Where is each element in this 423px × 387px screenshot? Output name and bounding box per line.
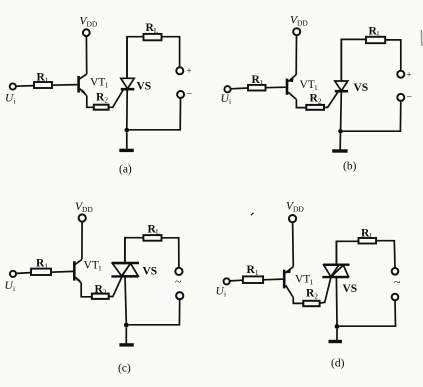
- svg-text:i: i: [14, 97, 16, 106]
- transistor VT1 (d) collector diagonal: [286, 285, 294, 297]
- resistor RL (b): [366, 37, 385, 43]
- thyristor VS (a) anode wire: [126, 37, 128, 79]
- transistor VT1 (c) emitter diagonal with arrow: [75, 277, 81, 283]
- svg-text:VS: VS: [143, 266, 158, 278]
- ground (d): [336, 329, 338, 340]
- triac VS (d) bottom wire: [335, 277, 338, 324]
- triac VS (c) bottom bar: [111, 275, 138, 277]
- wire emitter to VDD (d): [292, 222, 295, 266]
- output terminal bottom (c): [176, 292, 183, 299]
- wire R2 to gate (b): [324, 91, 339, 108]
- stray tick mark (d): [251, 213, 254, 215]
- resistor RL (a): [144, 34, 162, 40]
- svg-text:VS: VS: [354, 82, 369, 94]
- output terminal + (a): [176, 67, 183, 74]
- transistor VT1 (a) emitter diagonal with arrow: [80, 89, 87, 96]
- transistor VT1 (b) base bar: [286, 79, 289, 95]
- svg-text:2: 2: [103, 288, 107, 297]
- wire emitter to VDD (b): [295, 35, 297, 74]
- svg-text:1: 1: [98, 264, 102, 273]
- thyristor VS (a) triangle: [121, 78, 134, 88]
- transistor VT1 (b) collector diagonal: [288, 92, 296, 99]
- svg-text:(d): (d): [331, 358, 345, 370]
- transistor VT1 (b) emitter diagonal with arrow (PNP): [288, 75, 296, 82]
- wire emitter down (c): [81, 283, 92, 297]
- thyristor VS (a) cathode bar: [121, 88, 135, 91]
- svg-text:1: 1: [310, 278, 314, 287]
- svg-text:(c): (c): [118, 363, 131, 375]
- svg-text:DD: DD: [87, 20, 98, 29]
- resistor R2 (c): [92, 294, 109, 299]
- power terminal VDD (a): [83, 29, 90, 36]
- wire Ui to R1 (b): [231, 87, 248, 90]
- power terminal VDD (c): [79, 214, 86, 221]
- wire Ui to R1 (c): [16, 272, 31, 275]
- ground (c): [125, 327, 127, 343]
- ground (b): [339, 134, 341, 150]
- node junction dot (d): [335, 324, 340, 329]
- output terminal top (d): [392, 268, 399, 275]
- wire R2 to gate (a): [109, 89, 124, 107]
- output terminal + (b): [397, 71, 404, 78]
- wire top rail to RL (c): [125, 238, 143, 263]
- wire - terminal to bottom rail (b): [343, 101, 401, 131]
- svg-text:1: 1: [45, 76, 49, 85]
- svg-text:i: i: [224, 290, 226, 299]
- resistor R2 (b): [306, 105, 324, 110]
- node junction dot (a): [125, 128, 130, 133]
- wire R1 to base (b): [266, 86, 286, 89]
- svg-text:−: −: [407, 92, 413, 103]
- svg-text:L: L: [369, 232, 374, 241]
- node junction dot (c): [124, 323, 129, 328]
- triac VS (d) top bar: [323, 264, 349, 266]
- wire R2 to gate (c): [109, 277, 122, 297]
- input terminal Ui (c): [10, 271, 16, 277]
- power terminal VDD (d): [289, 215, 296, 222]
- svg-text:+: +: [407, 70, 412, 80]
- output terminal - (a): [177, 91, 184, 98]
- svg-text:1: 1: [44, 262, 48, 271]
- svg-text:DD: DD: [293, 205, 304, 214]
- resistor RL (d): [359, 238, 377, 244]
- ground (a): [126, 132, 128, 149]
- wire emitter down (a): [87, 96, 94, 108]
- thyristor VS (b) anode wire: [340, 39, 342, 81]
- svg-text:L: L: [377, 30, 382, 39]
- resistor R1 (d): [243, 276, 263, 283]
- triac VS (c) left triangle: [112, 263, 130, 276]
- triac VS (c) top bar: [112, 262, 139, 264]
- wire Ui to R1 (a): [16, 85, 34, 88]
- wire R1 to base (c): [51, 270, 73, 273]
- wire top rail to RL (d): [336, 241, 358, 264]
- wire RL to output (d): [376, 241, 395, 268]
- resistor R2 (d): [303, 301, 319, 306]
- svg-text:1: 1: [314, 83, 318, 92]
- svg-text:L: L: [154, 26, 159, 35]
- node junction dot (b): [338, 129, 343, 134]
- resistor RL (c): [143, 235, 161, 241]
- input terminal Ui (d): [224, 278, 230, 284]
- thyristor VS (b) cathode wire: [340, 91, 343, 129]
- triac VS (d) bottom bar: [322, 276, 348, 278]
- output terminal - (b): [397, 94, 404, 101]
- svg-text:DD: DD: [297, 19, 308, 28]
- transistor VT1 (c) base bar: [73, 261, 76, 280]
- svg-text:VT: VT: [295, 274, 310, 286]
- wire Ui to R1 (d): [230, 279, 243, 282]
- svg-text:L: L: [156, 228, 161, 237]
- svg-text:i: i: [13, 284, 15, 293]
- svg-text:1: 1: [260, 78, 264, 87]
- svg-text:1: 1: [105, 81, 109, 90]
- svg-text:2: 2: [104, 96, 108, 105]
- svg-text:VT: VT: [300, 79, 315, 91]
- wire collector to VDD (a): [85, 36, 87, 74]
- resistor R1 (c): [31, 269, 51, 275]
- triac VS (c) top wire: [124, 238, 126, 263]
- svg-text:~: ~: [394, 275, 401, 289]
- thyristor VS (b) triangle: [335, 81, 348, 91]
- transistor VT1 (a) base bar: [77, 76, 80, 93]
- svg-text:i: i: [229, 97, 231, 106]
- wire RL to + terminal (a): [162, 37, 180, 67]
- resistor R1 (a): [34, 82, 52, 88]
- input terminal Ui (b): [224, 86, 230, 92]
- wire R2 to gate (d): [320, 277, 331, 303]
- output terminal top (c): [175, 268, 182, 275]
- power terminal VDD (b): [293, 28, 300, 35]
- svg-text:DD: DD: [82, 205, 93, 214]
- transistor VT1 (d) base bar: [283, 270, 286, 289]
- svg-text:2: 2: [318, 97, 322, 106]
- triac VS (c) bottom wire: [125, 276, 126, 322]
- svg-text:~: ~: [175, 275, 182, 289]
- svg-text:(b): (b): [343, 161, 357, 173]
- transistor VT1 (c) collector diagonal: [75, 259, 82, 264]
- triac VS (d) right triangle: [331, 265, 348, 277]
- triac VS (d) left triangle: [324, 265, 339, 277]
- wire RL to output (c): [162, 238, 179, 268]
- svg-text:VT: VT: [90, 77, 105, 89]
- output terminal bottom (d): [392, 294, 399, 301]
- svg-text:+: +: [187, 66, 192, 76]
- wire collector to VDD (c): [81, 222, 83, 260]
- thyristor VS (a) cathode wire: [126, 89, 128, 130]
- svg-text:VS: VS: [137, 81, 152, 93]
- thyristor VS (b) cathode bar: [335, 90, 348, 93]
- svg-text:2: 2: [314, 292, 318, 301]
- wire R1 to base (d): [263, 278, 283, 281]
- svg-text:VT: VT: [84, 260, 99, 272]
- resistor R1 (b): [248, 85, 266, 91]
- wire - terminal to bottom rail (a): [129, 98, 180, 130]
- svg-text:−: −: [187, 89, 193, 100]
- svg-text:VS: VS: [343, 283, 358, 295]
- wire collector down (d): [293, 298, 303, 304]
- resistor R2 (a): [94, 105, 109, 110]
- triac VS (c) right triangle: [122, 263, 138, 276]
- wire collector down (b): [296, 99, 306, 107]
- svg-text:(a): (a): [119, 164, 132, 176]
- wire top rail to RL (a): [127, 37, 144, 79]
- scan artifact tick at right edge: [420, 30, 422, 46]
- wire output to bottom rail (c): [129, 299, 180, 325]
- wire R1 to base (a): [52, 84, 77, 87]
- input terminal Ui (a): [10, 83, 16, 89]
- svg-text:1: 1: [255, 268, 259, 277]
- wire RL to + terminal (b): [385, 40, 401, 71]
- transistor VT1 (d) emitter diagonal with arrow (PNP): [285, 267, 293, 273]
- triac VS (d) top wire: [335, 241, 337, 264]
- wire top rail to RL (b): [341, 39, 366, 81]
- transistor VT1 (a) collector diagonal: [80, 74, 87, 79]
- wire output to bottom rail (d): [339, 300, 395, 326]
